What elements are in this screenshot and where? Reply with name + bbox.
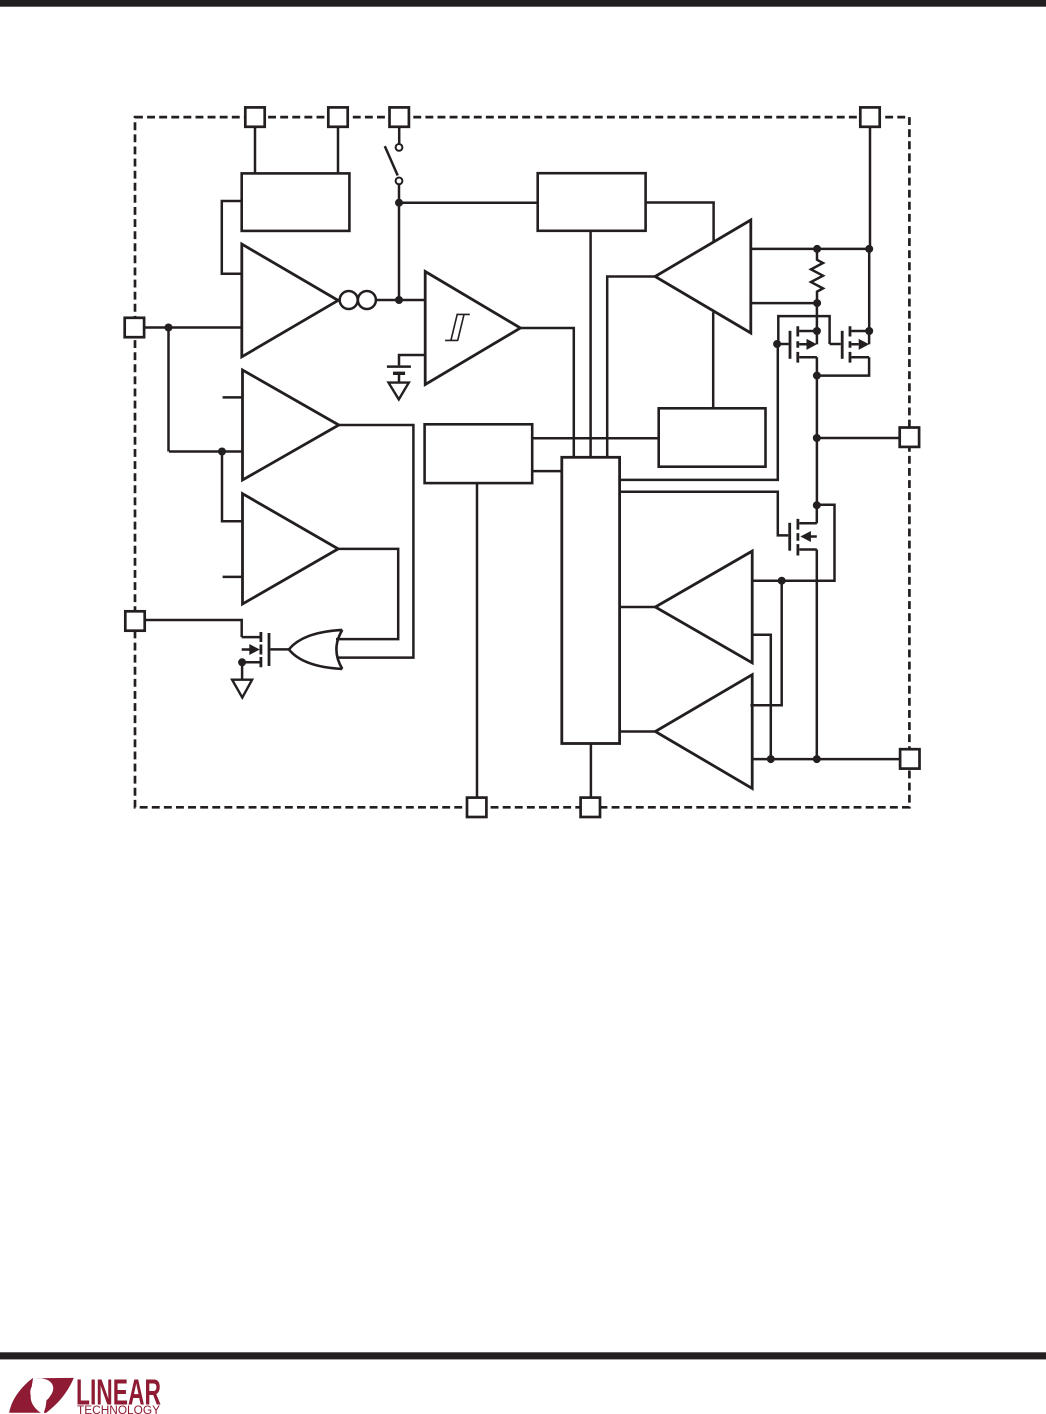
transistor Q2 (PMOS) bbox=[830, 326, 870, 362]
junction node B bbox=[395, 296, 403, 304]
header bar bbox=[0, 0, 1046, 7]
wire Q3 source to ground bbox=[241, 662, 244, 679]
junction Q2 drain bbox=[865, 327, 873, 335]
transistor Q3 (NMOS) bbox=[242, 632, 269, 667]
junction node D bbox=[218, 448, 226, 456]
wire box4 to box3 bbox=[532, 437, 659, 440]
wire node A to box2 bbox=[399, 201, 538, 204]
junction Q1 drain bbox=[813, 327, 821, 335]
switch S1 bbox=[385, 144, 403, 184]
pin pad P3 bbox=[390, 107, 409, 126]
error amplifier EA bbox=[655, 220, 751, 333]
wire error amp rail lower bbox=[751, 302, 817, 305]
wire Q4 source to power ground rail bbox=[816, 550, 819, 760]
wire box2 to error amp upper input bbox=[646, 203, 714, 242]
wire error amp output to pulse block bbox=[607, 277, 655, 458]
wire P5 to amp A1 lower input bbox=[145, 326, 242, 329]
junction Q3 source bbox=[238, 658, 246, 666]
wire SW to P7 bbox=[817, 437, 900, 440]
wire P1 to box1 bbox=[254, 128, 257, 173]
pin pad P1 bbox=[245, 107, 264, 126]
pin pad P5 (left upper) bbox=[125, 318, 144, 337]
amplifier A3 bbox=[243, 494, 339, 604]
wire OR output to Q3 gate bbox=[270, 648, 289, 651]
block box4 bbox=[425, 424, 533, 483]
wire pulse block to driver G1 bbox=[620, 606, 656, 609]
ground G2 (under Q3) bbox=[232, 680, 252, 698]
junction driver1 output node bbox=[778, 577, 786, 585]
amp A3 input stub bbox=[223, 576, 243, 579]
wire pulse block to driver G2 bbox=[620, 730, 656, 733]
amplifier A2 bbox=[243, 370, 339, 480]
wire error amp rail upper bbox=[751, 248, 869, 251]
footer rule bbox=[0, 1352, 1046, 1359]
pin pad P7 (right upper) bbox=[900, 428, 919, 447]
junction ground rail left bbox=[767, 755, 775, 763]
junction rail upper at VIN bbox=[865, 245, 873, 253]
ground G1 (under Schmitt) bbox=[389, 383, 409, 400]
wire box1 left bracket to amp A1 input bbox=[222, 201, 242, 274]
junction SW at P7 wire bbox=[813, 434, 821, 442]
junction node A (switch output) bbox=[395, 199, 403, 207]
pin pad P9 (bottom left) bbox=[467, 798, 486, 817]
wire P2 to box1 bbox=[337, 128, 340, 173]
junction Q1 Q2 gate tie bbox=[773, 340, 781, 348]
pin pad P6 wire bbox=[145, 620, 242, 637]
pin pad P10 (bottom right) bbox=[581, 798, 600, 817]
wire node D to amp A3 input bbox=[222, 452, 243, 522]
wire box4 to P9 bbox=[476, 483, 479, 797]
wire driver G1 lower stub to ground rail bbox=[752, 635, 771, 759]
wire SW node vertical bbox=[816, 376, 819, 506]
transistor Q1 (PMOS) bbox=[777, 326, 817, 362]
wire amp A3 output to OR gate bbox=[336, 549, 398, 639]
Schmitt trigger U1 bbox=[425, 272, 520, 385]
svg-text:TECHNOLOGY: TECHNOLOGY bbox=[77, 1403, 160, 1414]
wire node C down to amp A2 input bbox=[169, 328, 243, 452]
driver G2 bbox=[655, 675, 752, 789]
wire box2 bottom to pulse block bbox=[589, 231, 592, 457]
reference battery B1 bbox=[387, 367, 411, 383]
amplifier A1 bbox=[242, 244, 338, 357]
junction source rail bbox=[813, 372, 821, 380]
wire switch down to node A bbox=[398, 184, 401, 300]
wire amp A2 output to OR gate bbox=[337, 425, 413, 658]
driver G1 bbox=[655, 551, 752, 663]
junction ground rail right bbox=[813, 755, 821, 763]
wire SW branch to driver1 output bbox=[751, 505, 835, 581]
wire SW to Q4 drain bbox=[816, 505, 819, 523]
block box3 bbox=[659, 408, 766, 466]
wire P3 to switch bbox=[398, 128, 401, 144]
transistor Q4 (NMOS) bbox=[790, 519, 817, 556]
junction rail lower at R1 bbox=[813, 299, 821, 307]
wire Schmitt lower input to reference ground bbox=[399, 355, 425, 365]
junction on rail upper at R1 bbox=[813, 245, 821, 253]
pin pad P8 (right lower) bbox=[900, 749, 919, 768]
wire R1 to Q1 drain bbox=[816, 303, 819, 331]
pin pad P2 bbox=[328, 107, 347, 126]
resistor R1 bbox=[811, 249, 823, 303]
pin pad P6 (left lower) bbox=[125, 611, 144, 630]
power ground rail bbox=[752, 758, 900, 761]
wire box4 to pulse block bbox=[532, 470, 562, 473]
wire driver1 node to driver G2 bbox=[750, 581, 781, 706]
wire pulse block to PMOS gates bbox=[620, 344, 778, 480]
wire P4 down to rails bbox=[868, 128, 871, 331]
block box2 bbox=[538, 173, 646, 231]
wire Schmitt output to pulse block bbox=[520, 328, 573, 457]
OR gate U3 bbox=[289, 630, 342, 669]
junction node C bbox=[165, 324, 173, 332]
wire current source to Schmitt input bbox=[376, 299, 425, 302]
wire pulse block to P10 bbox=[590, 744, 593, 798]
Linear Technology logo bbox=[9, 1372, 161, 1414]
current source CS1 (double circle) bbox=[338, 291, 376, 309]
block box1 bbox=[242, 173, 350, 231]
pulse block U2 bbox=[562, 457, 620, 743]
pin pad P4 bbox=[860, 107, 879, 126]
wire Q1 Q2 source rail bbox=[817, 357, 869, 375]
IC boundary (dashed) bbox=[135, 117, 909, 807]
wire gate tie bracket bbox=[778, 316, 829, 344]
wire pulse block to Q4 gate bbox=[620, 492, 789, 536]
amp A2 input stub bbox=[223, 396, 243, 399]
wire error amp lower input to box3 bbox=[712, 312, 715, 408]
junction SW lower bbox=[813, 501, 821, 509]
